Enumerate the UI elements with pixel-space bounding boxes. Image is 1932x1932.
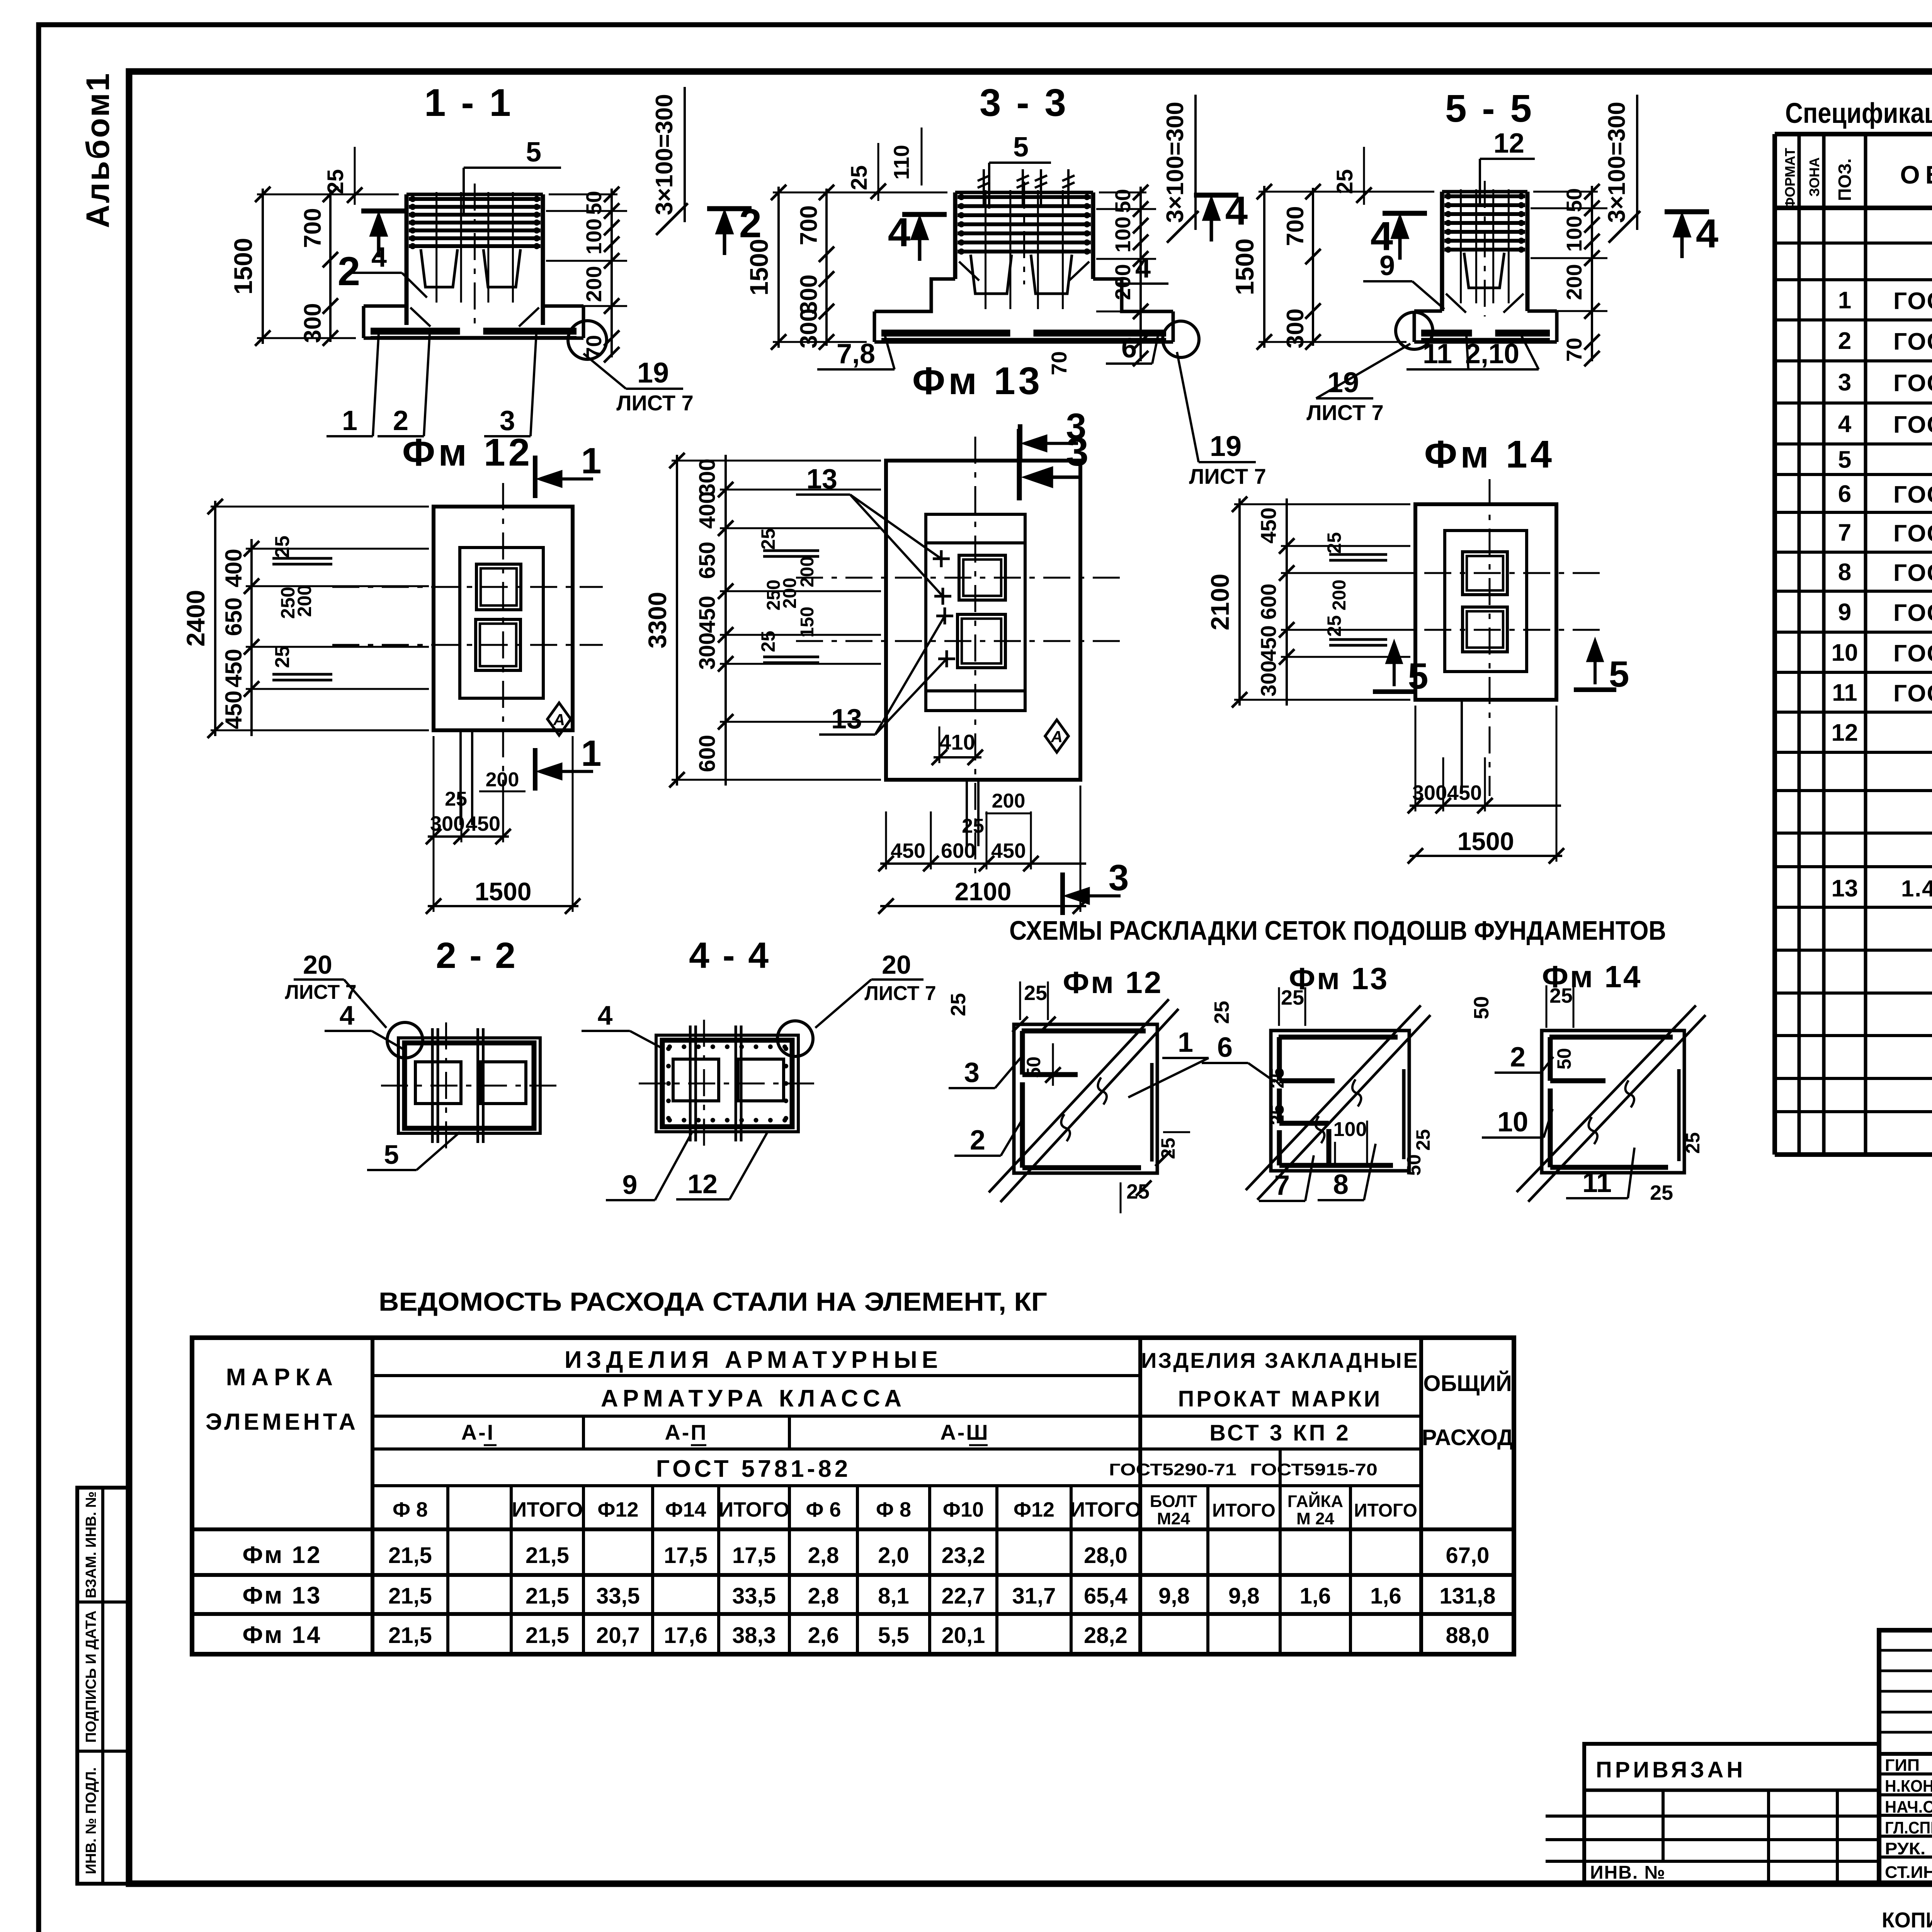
svg-text:450: 450 bbox=[221, 649, 247, 687]
reinforcement mesh in pier bbox=[1444, 194, 1525, 198]
svg-text:ЛИСТ 7: ЛИСТ 7 bbox=[1306, 400, 1384, 425]
cut mark 5 bbox=[1373, 689, 1415, 694]
svg-text:700: 700 bbox=[796, 205, 822, 245]
svg-text:110: 110 bbox=[889, 145, 913, 180]
svg-text:ИНВ. № ПОДЛ.: ИНВ. № ПОДЛ. bbox=[83, 1767, 99, 1874]
svg-text:Фм 13: Фм 13 bbox=[912, 359, 1043, 403]
svg-text:5: 5 bbox=[384, 1139, 399, 1170]
svg-text:300: 300 bbox=[695, 459, 720, 496]
sockets bbox=[421, 249, 457, 287]
sidebar table bbox=[77, 1488, 129, 1884]
svg-text:100: 100 bbox=[582, 218, 606, 254]
svg-text:ПРОКАТ МАРКИ: ПРОКАТ МАРКИ bbox=[1178, 1386, 1383, 1412]
svg-text:А-Ш: А-Ш bbox=[940, 1420, 989, 1444]
svg-text:20: 20 bbox=[882, 950, 911, 980]
svg-text:67,0: 67,0 bbox=[1446, 1543, 1490, 1568]
svg-text:5: 5 bbox=[1013, 132, 1029, 163]
svg-text:150: 150 bbox=[797, 607, 818, 638]
svg-text:50: 50 bbox=[582, 191, 606, 215]
svg-text:КОПИРОВАЛ ЗАВЬЯЛОВА: КОПИРОВАЛ ЗАВЬЯЛОВА bbox=[1882, 1908, 1932, 1932]
svg-text:Фм 12: Фм 12 bbox=[1063, 965, 1163, 1000]
svg-text:6: 6 bbox=[1217, 1032, 1233, 1063]
svg-text:ВЕДОМОСТЬ РАСХОДА СТАЛИ НА ЭЛЕ: ВЕДОМОСТЬ РАСХОДА СТАЛИ НА ЭЛЕМЕНТ, КГ bbox=[379, 1287, 1047, 1316]
svg-text:50: 50 bbox=[1023, 1056, 1044, 1078]
svg-text:21,5: 21,5 bbox=[388, 1543, 432, 1568]
svg-text:300: 300 bbox=[796, 308, 822, 348]
svg-text:100: 100 bbox=[1562, 216, 1586, 252]
svg-text:2,8: 2,8 bbox=[808, 1543, 839, 1568]
svg-text:7,8: 7,8 bbox=[837, 338, 875, 369]
svg-text:Фм 12: Фм 12 bbox=[402, 431, 533, 474]
svg-text:20,1: 20,1 bbox=[942, 1623, 985, 1648]
svg-text:600: 600 bbox=[941, 839, 976, 862]
svg-text:ИТОГО: ИТОГО bbox=[1070, 1498, 1141, 1521]
svg-text:1: 1 bbox=[1838, 287, 1851, 314]
svg-text:М24: М24 bbox=[1157, 1509, 1190, 1528]
svg-text:70: 70 bbox=[582, 335, 606, 359]
svg-text:7: 7 bbox=[1838, 520, 1851, 546]
detail circle 2-2 bbox=[387, 1022, 423, 1058]
svg-text:Спецификация элементов фундаме: Спецификация элементов фундаментов Фм 12… bbox=[1785, 97, 1932, 129]
svg-text:4: 4 bbox=[371, 242, 387, 273]
section view marker 4 bbox=[902, 212, 947, 217]
svg-text:600: 600 bbox=[695, 735, 720, 772]
svg-text:10: 10 bbox=[1832, 639, 1858, 666]
svg-text:700: 700 bbox=[1282, 206, 1309, 246]
svg-text:Ф 6: Ф 6 bbox=[806, 1498, 841, 1521]
svg-text:50: 50 bbox=[1553, 1048, 1575, 1070]
svg-text:ОБЩИЙ: ОБЩИЙ bbox=[1423, 1371, 1512, 1396]
svg-text:25: 25 bbox=[1650, 1181, 1673, 1204]
svg-text:5: 5 bbox=[1408, 656, 1429, 697]
layout scheme Fm13 bbox=[1271, 1031, 1409, 1171]
svg-text:200: 200 bbox=[1111, 264, 1135, 300]
svg-text:МАРКА: МАРКА bbox=[226, 1364, 338, 1391]
plan Fm12 socket A bbox=[476, 564, 521, 610]
svg-text:4: 4 bbox=[888, 210, 910, 255]
svg-text:300: 300 bbox=[1412, 781, 1447, 804]
svg-text:25: 25 bbox=[1549, 984, 1573, 1007]
plan Fm14 left dims bbox=[1238, 498, 1241, 706]
reinforcement mesh in pier bbox=[957, 195, 1091, 199]
svg-text:50: 50 bbox=[1111, 189, 1135, 213]
svg-text:25: 25 bbox=[1126, 1180, 1150, 1203]
svg-text:Фм 12: Фм 12 bbox=[243, 1542, 322, 1568]
svg-text:13: 13 bbox=[831, 704, 862, 735]
svg-text:ГОСТ5915-70: ГОСТ5915-70 bbox=[1250, 1460, 1378, 1479]
right dimension chain bbox=[1591, 186, 1593, 361]
bottom mesh bars bbox=[371, 328, 460, 335]
plan Fm14 bottom dims bbox=[1461, 700, 1463, 794]
svg-text:ГИП: ГИП bbox=[1885, 1756, 1920, 1775]
svg-text:Фм 14: Фм 14 bbox=[243, 1622, 322, 1648]
svg-text:ЛИСТ 7: ЛИСТ 7 bbox=[1189, 464, 1266, 488]
svg-text:ЛИСТ 7: ЛИСТ 7 bbox=[616, 391, 694, 415]
svg-text:100: 100 bbox=[1333, 1118, 1367, 1141]
anchor bolt outlets bbox=[983, 169, 985, 208]
svg-text:2100: 2100 bbox=[1206, 574, 1234, 631]
svg-text:7: 7 bbox=[1274, 1170, 1290, 1201]
plan view Fm14 bbox=[1415, 504, 1556, 700]
svg-text:1: 1 bbox=[581, 733, 602, 774]
svg-text:25: 25 bbox=[1210, 1001, 1233, 1024]
chamfer lines at pier base bbox=[410, 308, 430, 327]
svg-text:70: 70 bbox=[1562, 338, 1586, 362]
svg-text:4: 4 bbox=[1838, 411, 1852, 437]
footing outline bbox=[874, 279, 955, 311]
svg-text:450: 450 bbox=[1447, 781, 1482, 804]
svg-text:Ф10: Ф10 bbox=[943, 1498, 984, 1521]
cut mark 3 bbox=[1018, 424, 1022, 459]
svg-text:3: 3 bbox=[1838, 369, 1851, 396]
svg-text:20,7: 20,7 bbox=[596, 1623, 640, 1648]
svg-text:ИТОГО: ИТОГО bbox=[512, 1498, 583, 1521]
cut mark 3 bbox=[1060, 872, 1065, 915]
svg-text:11: 11 bbox=[1832, 680, 1857, 706]
svg-text:Ф14: Ф14 bbox=[665, 1498, 706, 1521]
svg-text:200: 200 bbox=[1329, 580, 1350, 611]
svg-text:38,3: 38,3 bbox=[732, 1623, 776, 1648]
left dimension chain bbox=[777, 187, 780, 348]
axis mark diamond A bbox=[548, 703, 571, 735]
svg-text:АРМАТУРА КЛАССА: АРМАТУРА КЛАССА bbox=[601, 1385, 906, 1412]
svg-text:25: 25 bbox=[757, 528, 779, 550]
svg-text:25: 25 bbox=[1682, 1132, 1704, 1154]
svg-text:131,8: 131,8 bbox=[1439, 1583, 1495, 1609]
svg-text:450: 450 bbox=[991, 839, 1026, 862]
svg-text:ГОСТ23279-85: ГОСТ23279-85 bbox=[1893, 600, 1932, 626]
cut mark 1 bbox=[533, 748, 537, 791]
svg-text:1 - 1: 1 - 1 bbox=[424, 81, 513, 124]
svg-text:50: 50 bbox=[1403, 1154, 1425, 1176]
svg-text:ГОСТ 5781-82: ГОСТ 5781-82 bbox=[656, 1456, 851, 1482]
svg-text:21,5: 21,5 bbox=[526, 1623, 569, 1648]
svg-text:2: 2 bbox=[338, 249, 360, 294]
footing outline bbox=[364, 304, 406, 308]
svg-text:300: 300 bbox=[299, 303, 326, 343]
svg-text:410: 410 bbox=[939, 730, 975, 754]
cut mark 5 bbox=[1574, 687, 1616, 692]
svg-text:ГОСТ5290-71: ГОСТ5290-71 bbox=[1109, 1460, 1236, 1479]
svg-text:21,5: 21,5 bbox=[526, 1583, 569, 1609]
svg-text:4: 4 bbox=[340, 1000, 355, 1031]
cut mark 1 bbox=[533, 456, 537, 498]
mesh view 4-4 bbox=[656, 1035, 798, 1132]
layout scheme Fm12 bbox=[1014, 1024, 1157, 1173]
svg-text:23,2: 23,2 bbox=[942, 1543, 985, 1568]
svg-text:ГОСТ23279-85: ГОСТ23279-85 bbox=[1893, 370, 1932, 397]
svg-text:2,8: 2,8 bbox=[808, 1583, 839, 1609]
section view marker 2 bbox=[361, 209, 406, 214]
svg-text:9: 9 bbox=[1379, 250, 1395, 281]
svg-text:НАЧ.ОТД: НАЧ.ОТД bbox=[1885, 1798, 1932, 1816]
mesh view 2-2 bbox=[398, 1038, 540, 1133]
svg-text:450: 450 bbox=[891, 839, 925, 862]
title block horizontals bbox=[1879, 1649, 1932, 1652]
svg-text:4: 4 bbox=[1696, 211, 1718, 256]
svg-text:ИЗДЕЛИЯ АРМАТУРНЫЕ: ИЗДЕЛИЯ АРМАТУРНЫЕ bbox=[565, 1347, 942, 1373]
svg-text:1,6: 1,6 bbox=[1300, 1583, 1331, 1609]
svg-text:А: А bbox=[1051, 728, 1063, 746]
svg-text:1500: 1500 bbox=[1230, 238, 1259, 295]
svg-text:1500: 1500 bbox=[1458, 827, 1514, 855]
svg-text:ГОСТ23279-85: ГОСТ23279-85 bbox=[1893, 520, 1932, 547]
svg-text:РУК. ГР.: РУК. ГР. bbox=[1885, 1839, 1932, 1858]
svg-text:ГОСТ23279-85: ГОСТ23279-85 bbox=[1893, 640, 1932, 667]
svg-text:9: 9 bbox=[1838, 599, 1851, 626]
plan Fm12 socket B bbox=[476, 619, 520, 670]
svg-text:ПОДПИСЬ И ДАТА: ПОДПИСЬ И ДАТА bbox=[83, 1611, 99, 1743]
svg-text:21,5: 21,5 bbox=[388, 1623, 432, 1648]
svg-text:450: 450 bbox=[466, 812, 500, 835]
svg-text:БОЛТ: БОЛТ bbox=[1150, 1492, 1197, 1511]
svg-text:25: 25 bbox=[1157, 1138, 1179, 1159]
chamfer lines at pier base bbox=[959, 262, 979, 281]
svg-text:ГОСТ23279-85: ГОСТ23279-85 bbox=[1893, 560, 1932, 587]
svg-text:28,0: 28,0 bbox=[1084, 1543, 1128, 1568]
svg-text:3×100=300: 3×100=300 bbox=[1162, 102, 1189, 223]
plan Fm13 bottom dims bbox=[880, 862, 1086, 865]
svg-text:200: 200 bbox=[294, 585, 315, 617]
steel table grid bbox=[192, 1338, 1514, 1654]
svg-text:1500: 1500 bbox=[475, 877, 532, 906]
svg-text:25: 25 bbox=[445, 788, 467, 810]
svg-text:3300: 3300 bbox=[643, 592, 672, 649]
left dimension chain bbox=[262, 189, 264, 344]
svg-text:СХЕМЫ РАСКЛАДКИ СЕТОК ПОДОШВ Ф: СХЕМЫ РАСКЛАДКИ СЕТОК ПОДОШВ ФУНДАМЕНТОВ bbox=[1009, 915, 1666, 946]
svg-text:17,5: 17,5 bbox=[732, 1543, 776, 1568]
svg-text:300: 300 bbox=[796, 274, 822, 314]
left attachment table bbox=[1584, 1744, 1879, 1884]
plan Fm12 rebar stubs left bbox=[272, 557, 332, 560]
pier outline bbox=[405, 194, 409, 325]
svg-text:5 - 5: 5 - 5 bbox=[1445, 87, 1534, 130]
title block outline bbox=[1879, 1630, 1932, 1884]
svg-text:8: 8 bbox=[1333, 1169, 1349, 1200]
svg-text:21,5: 21,5 bbox=[388, 1583, 432, 1609]
svg-text:5: 5 bbox=[1609, 654, 1629, 695]
svg-text:25: 25 bbox=[1323, 532, 1345, 554]
svg-text:ВСТ 3 КП 2: ВСТ 3 КП 2 bbox=[1209, 1420, 1351, 1446]
bottom mesh bars bbox=[1421, 330, 1472, 337]
plan Fm13 socket A bbox=[959, 555, 1005, 600]
svg-text:Н.КОНТР.: Н.КОНТР. bbox=[1885, 1777, 1932, 1796]
sockets bbox=[1464, 253, 1504, 288]
plan Fm13 socket B bbox=[957, 614, 1005, 668]
svg-text:700: 700 bbox=[299, 208, 326, 248]
svg-text:1500: 1500 bbox=[745, 239, 773, 296]
detail circle bbox=[1396, 312, 1433, 349]
detail circle bbox=[568, 321, 607, 359]
svg-text:4: 4 bbox=[1225, 188, 1248, 233]
svg-text:2,10: 2,10 bbox=[1465, 338, 1519, 369]
svg-text:650: 650 bbox=[695, 542, 720, 579]
svg-text:ФОРМАТ: ФОРМАТ bbox=[1782, 148, 1798, 209]
svg-text:300: 300 bbox=[430, 812, 465, 835]
svg-text:200: 200 bbox=[1562, 264, 1586, 300]
svg-text:33,5: 33,5 bbox=[596, 1583, 640, 1609]
svg-text:8: 8 bbox=[1838, 559, 1851, 586]
svg-text:19: 19 bbox=[637, 357, 669, 389]
svg-text:3 - 3: 3 - 3 bbox=[980, 81, 1068, 124]
svg-text:ПРИВЯЗАН: ПРИВЯЗАН bbox=[1596, 1757, 1746, 1782]
left dimension chain bbox=[1263, 186, 1265, 348]
detail circle 4-4 bbox=[777, 1021, 813, 1056]
svg-text:4: 4 bbox=[598, 1000, 613, 1031]
svg-text:25: 25 bbox=[947, 993, 970, 1016]
svg-text:300: 300 bbox=[1256, 660, 1281, 696]
svg-text:4 - 4: 4 - 4 bbox=[689, 935, 770, 976]
svg-text:ГОСТ23279-85: ГОСТ23279-85 bbox=[1893, 288, 1932, 315]
svg-text:2,0: 2,0 bbox=[878, 1543, 909, 1568]
sockets bbox=[971, 255, 1012, 294]
svg-text:70: 70 bbox=[1047, 351, 1071, 375]
svg-text:А: А bbox=[553, 711, 565, 729]
svg-text:3×100=300: 3×100=300 bbox=[1604, 102, 1630, 223]
plan Fm13 bottom rebar stubs bbox=[966, 780, 968, 846]
svg-text:17,6: 17,6 bbox=[664, 1623, 707, 1648]
svg-text:400: 400 bbox=[221, 549, 247, 587]
svg-text:25: 25 bbox=[1323, 615, 1345, 637]
svg-text:А-П: А-П bbox=[665, 1420, 707, 1444]
svg-text:25: 25 bbox=[1412, 1129, 1434, 1151]
svg-text:5,5: 5,5 bbox=[878, 1623, 909, 1648]
svg-text:25: 25 bbox=[847, 165, 872, 190]
right dimension chain bbox=[1139, 187, 1142, 361]
svg-text:12: 12 bbox=[1493, 128, 1524, 159]
svg-text:ГАЙКА: ГАЙКА bbox=[1287, 1491, 1343, 1511]
svg-text:31,7: 31,7 bbox=[1012, 1583, 1056, 1609]
svg-text:22,7: 22,7 bbox=[942, 1583, 985, 1609]
svg-text:25: 25 bbox=[1024, 981, 1047, 1005]
detail circle bbox=[1163, 321, 1199, 357]
plan Fm13 dim 410 bbox=[939, 726, 940, 763]
svg-text:1: 1 bbox=[581, 440, 602, 481]
plan Fm13 inner rim bbox=[926, 514, 1025, 711]
svg-text:Фм 13: Фм 13 bbox=[243, 1582, 322, 1609]
svg-text:650: 650 bbox=[221, 597, 247, 636]
svg-text:11: 11 bbox=[1423, 338, 1452, 369]
svg-text:200: 200 bbox=[797, 556, 818, 587]
svg-text:2: 2 bbox=[1838, 328, 1851, 354]
svg-text:2: 2 bbox=[970, 1125, 985, 1156]
svg-text:200: 200 bbox=[992, 790, 1026, 812]
svg-text:ОБОЗНАЧЕНИЕ: ОБОЗНАЧЕНИЕ bbox=[1900, 160, 1932, 189]
svg-text:Ф12: Ф12 bbox=[1014, 1498, 1054, 1521]
plan Fm13 centerlines bbox=[975, 437, 976, 877]
svg-text:1500: 1500 bbox=[229, 238, 257, 295]
svg-text:25: 25 bbox=[323, 169, 348, 194]
svg-text:12: 12 bbox=[1832, 719, 1858, 746]
svg-text:ИЗДЕЛИЯ ЗАКЛАДНЫЕ: ИЗДЕЛИЯ ЗАКЛАДНЫЕ bbox=[1141, 1348, 1419, 1372]
svg-text:50: 50 bbox=[1562, 188, 1586, 212]
svg-text:ИНВ. №: ИНВ. № bbox=[1590, 1862, 1666, 1883]
plan Fm13 anchor crosses bbox=[933, 558, 950, 560]
svg-text:25: 25 bbox=[757, 631, 779, 652]
svg-text:25: 25 bbox=[1281, 986, 1304, 1009]
svg-text:2100: 2100 bbox=[955, 877, 1012, 906]
svg-text:25: 25 bbox=[1267, 1104, 1288, 1125]
svg-text:2,6: 2,6 bbox=[808, 1623, 839, 1648]
svg-text:ГЛ.СПЕЦ.: ГЛ.СПЕЦ. bbox=[1885, 1818, 1932, 1837]
pier outline bbox=[953, 192, 957, 279]
right dimension chain bbox=[611, 189, 613, 357]
plan Fm12 centerlines bbox=[502, 483, 504, 831]
svg-text:6: 6 bbox=[1838, 481, 1851, 507]
plan Fm14 centerlines bbox=[1489, 479, 1491, 796]
section view marker 4 bbox=[1383, 211, 1427, 216]
spec table grid bbox=[1775, 132, 1932, 136]
plan Fm13 left dims bbox=[676, 455, 678, 786]
plan Fm14 rebar stubs bbox=[1329, 553, 1387, 556]
svg-text:ГОСТ23279-85: ГОСТ23279-85 bbox=[1893, 412, 1932, 438]
svg-text:12: 12 bbox=[687, 1169, 718, 1199]
section view marker 3 bbox=[1017, 429, 1022, 500]
svg-text:450: 450 bbox=[221, 690, 247, 729]
svg-text:200: 200 bbox=[486, 769, 519, 791]
svg-text:21,5: 21,5 bbox=[526, 1543, 569, 1568]
svg-text:88,0: 88,0 bbox=[1446, 1623, 1490, 1648]
svg-text:3: 3 bbox=[1109, 857, 1129, 898]
svg-text:100: 100 bbox=[1111, 216, 1135, 252]
svg-text:19: 19 bbox=[1210, 430, 1242, 462]
svg-text:Ф12: Ф12 bbox=[597, 1498, 638, 1521]
svg-text:1,6: 1,6 bbox=[1370, 1583, 1401, 1609]
svg-text:3: 3 bbox=[964, 1057, 980, 1088]
svg-text:3: 3 bbox=[1066, 406, 1087, 447]
svg-text:Ф 8: Ф 8 bbox=[393, 1498, 428, 1521]
svg-text:ИТОГО: ИТОГО bbox=[718, 1498, 789, 1521]
chamfer lines at pier base bbox=[1446, 294, 1466, 313]
plan Fm12 bottom dims bbox=[428, 835, 509, 838]
svg-text:10: 10 bbox=[1497, 1107, 1528, 1138]
plan Fm12 bottom rebar stubs bbox=[459, 730, 462, 825]
plan Fm13 rebar stubs left bbox=[763, 549, 819, 552]
plan Fm14 socket A bbox=[1463, 552, 1507, 595]
plan Fm12 left dims bbox=[214, 501, 216, 736]
bottom mesh bars bbox=[881, 330, 1010, 337]
svg-text:Ф 8: Ф 8 bbox=[876, 1498, 911, 1521]
pier outline bbox=[1440, 192, 1444, 311]
svg-text:25: 25 bbox=[962, 815, 984, 837]
svg-text:ВЗАМ. ИНВ. №: ВЗАМ. ИНВ. № bbox=[83, 1492, 99, 1599]
svg-text:ИТОГО: ИТОГО bbox=[1212, 1500, 1276, 1521]
svg-text:1: 1 bbox=[1178, 1027, 1193, 1058]
svg-text:400: 400 bbox=[695, 492, 720, 529]
svg-text:50: 50 bbox=[1470, 996, 1493, 1019]
svg-text:25: 25 bbox=[1332, 169, 1357, 194]
svg-text:9: 9 bbox=[622, 1170, 638, 1200]
svg-text:65,4: 65,4 bbox=[1084, 1583, 1128, 1609]
section view marker 4 bbox=[1194, 193, 1238, 198]
plan Fm12 inner rim bbox=[460, 548, 543, 698]
svg-text:ГОСТ23279-85: ГОСТ23279-85 bbox=[1893, 481, 1932, 508]
svg-text:200: 200 bbox=[582, 266, 606, 302]
svg-text:2400: 2400 bbox=[181, 590, 210, 647]
svg-text:5: 5 bbox=[526, 137, 541, 168]
plan Fm14 inner rim bbox=[1445, 531, 1527, 672]
svg-text:ИТОГО: ИТОГО bbox=[1354, 1500, 1417, 1521]
svg-text:450: 450 bbox=[1256, 625, 1281, 661]
plan Fm14 socket B bbox=[1463, 607, 1507, 652]
layout scheme Fm14 bbox=[1542, 1031, 1684, 1173]
axis mark diamond A bbox=[1045, 720, 1068, 752]
svg-text:ЭЛЕМЕНТА: ЭЛЕМЕНТА bbox=[206, 1409, 359, 1435]
svg-text:СТ.ИНЖ.: СТ.ИНЖ. bbox=[1885, 1863, 1932, 1882]
svg-text:5: 5 bbox=[1838, 447, 1851, 473]
svg-text:1.412.1-4: 1.412.1-4 bbox=[1901, 876, 1932, 901]
svg-text:600: 600 bbox=[1256, 583, 1281, 619]
